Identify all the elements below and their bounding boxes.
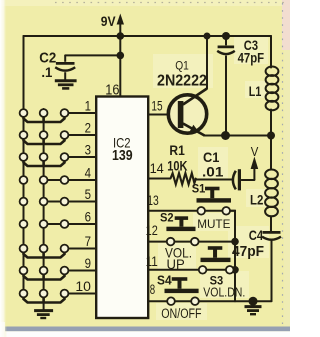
wire 9V top rail	[24, 35, 272, 37]
svg-text:.1: .1	[41, 64, 52, 80]
svg-text:6: 6	[85, 209, 91, 224]
wire S2 row to bus	[199, 241, 235, 243]
inductor L1	[266, 67, 279, 111]
svg-text:47pF: 47pF	[238, 50, 265, 65]
pin 16	[105, 82, 119, 98]
keypad row 6 contacts	[20, 220, 69, 228]
wire pin13 S1 row	[149, 210, 236, 212]
keypad row 7 contacts	[20, 245, 69, 253]
transistor Q1	[168, 89, 207, 136]
wire pin14 to R1	[149, 178, 171, 180]
wire keypad row 9 to pin 9	[65, 270, 97, 272]
svg-text:UP: UP	[167, 256, 185, 272]
wire keypad row 10 bus	[24, 297, 65, 303]
wire right column top (to L1)	[270, 36, 272, 68]
label VOL.	[165, 245, 192, 261]
pin 9	[85, 256, 91, 271]
wire pin11 volume-up row	[149, 269, 236, 271]
svg-text:R1: R1	[169, 143, 185, 158]
node vol-up / bus	[231, 266, 239, 274]
wire keypad row 9 bus	[24, 274, 65, 280]
label V	[251, 144, 259, 159]
label VOL.DN.	[203, 286, 245, 300]
svg-text:7: 7	[85, 234, 91, 249]
wire keypad row 1 bus	[24, 116, 65, 122]
wire C1 to antenna	[242, 179, 255, 181]
svg-text:.01: .01	[202, 164, 224, 179]
wire middle keypad column	[43, 109, 45, 304]
svg-text:VOL.DN.: VOL.DN.	[203, 286, 245, 300]
pin 11	[146, 254, 158, 269]
wire emitter rail	[204, 135, 271, 137]
keypad row 10 contacts	[20, 290, 69, 298]
9V supply arrow	[117, 14, 124, 37]
wire keypad row 2 to pin 2	[65, 134, 97, 136]
label S1	[192, 184, 206, 196]
wire pin15 to Q1 base	[149, 114, 179, 116]
pin 4	[85, 165, 92, 180]
value R1 10K	[167, 159, 187, 174]
label IC2	[113, 135, 131, 151]
wire C4 to ground rail	[271, 240, 273, 302]
label S4	[157, 274, 172, 288]
label L1	[249, 84, 262, 99]
wire keypad row 3 bus	[24, 160, 65, 166]
keypad row 3 contacts	[20, 153, 69, 161]
svg-text:3: 3	[85, 142, 91, 157]
keypad row 5 contacts	[20, 198, 69, 206]
capacitor C1	[233, 169, 240, 190]
antenna V arrow	[251, 157, 259, 181]
capacitor C3	[217, 40, 235, 136]
pin 12	[146, 223, 158, 238]
label C1	[203, 150, 220, 165]
label C3	[244, 38, 259, 53]
pin 15	[151, 99, 162, 114]
pin 6	[85, 209, 91, 224]
node emitter rail / L1 / L2	[267, 132, 275, 140]
wire L2 to C4	[270, 217, 272, 232]
node collector / rail	[204, 33, 211, 40]
pin 7	[85, 234, 91, 249]
value C2 .1	[41, 64, 52, 80]
pin 8	[150, 282, 155, 297]
label ON/OFF	[161, 306, 201, 321]
svg-text:1: 1	[85, 98, 91, 113]
wire keypad row 10 to pin 10	[65, 293, 97, 295]
wire keypad row 5 to pin 5	[44, 201, 97, 203]
label C2	[39, 51, 56, 67]
svg-text:139: 139	[112, 147, 133, 164]
resistor R1	[171, 173, 196, 184]
wire pin8 S4 row	[149, 300, 200, 302]
svg-text:5: 5	[85, 187, 91, 202]
dotted frame right	[282, 3, 284, 324]
label 139	[112, 147, 133, 164]
node C2 / pin16	[117, 52, 125, 60]
node 9V rail / pin16	[117, 32, 125, 40]
ground below keypad	[34, 304, 53, 318]
pin 2	[85, 120, 91, 135]
svg-text:9V: 9V	[101, 13, 116, 29]
pin 13	[147, 193, 159, 208]
wire L2 top	[270, 136, 272, 170]
label 2N2222	[157, 73, 207, 90]
svg-text:8: 8	[150, 282, 155, 297]
pin 1	[85, 98, 91, 113]
wire collector drop	[206, 36, 208, 89]
dotted frame top	[55, 2, 288, 4]
wire keypad row 6 to pin 6	[44, 223, 97, 225]
switch S3 volume	[199, 246, 234, 273]
wire keypad row 1 to pin 1	[65, 112, 97, 114]
label UP	[167, 256, 185, 272]
svg-text:13: 13	[147, 193, 159, 208]
wire left keypad column	[23, 36, 25, 297]
label background patches	[153, 35, 269, 320]
ground bottom right	[245, 301, 262, 314]
wire C2 to node	[65, 54, 120, 56]
svg-text:16: 16	[105, 82, 119, 98]
label 9V	[101, 13, 116, 29]
svg-text:MUTE: MUTE	[197, 217, 230, 231]
svg-text:L2: L2	[250, 193, 263, 208]
keypad row 2 contacts	[20, 131, 69, 139]
label MUTE	[197, 217, 230, 231]
label L2	[250, 193, 263, 208]
svg-text:S1: S1	[192, 184, 206, 196]
svg-text:S2: S2	[160, 211, 174, 225]
label Q1	[175, 59, 189, 73]
svg-text:C1: C1	[203, 150, 220, 165]
svg-text:Q1: Q1	[175, 59, 189, 73]
wire keypad row 3 to pin 3	[65, 156, 97, 158]
wire pin16 supply drop	[119, 36, 121, 97]
value C4 47pF	[232, 244, 264, 260]
svg-text:10K: 10K	[167, 159, 187, 174]
keypad row 1 contacts	[20, 109, 69, 117]
pin 10	[75, 279, 91, 294]
wire bottom ground rail	[200, 300, 272, 302]
svg-text:10: 10	[75, 279, 91, 294]
svg-text:2: 2	[85, 120, 91, 135]
svg-text:C4: C4	[249, 228, 264, 243]
keypad row 9 contacts	[20, 267, 69, 275]
left scan edge	[0, 0, 7, 337]
label R1	[169, 143, 185, 158]
label C4	[249, 228, 264, 243]
svg-text:11: 11	[146, 254, 158, 269]
switch S4 on/off	[165, 277, 199, 305]
svg-text:14: 14	[150, 161, 165, 176]
svg-text:15: 15	[151, 99, 162, 114]
pin 14	[150, 161, 165, 176]
node ground junction	[249, 297, 258, 306]
value C1 .01	[202, 164, 224, 179]
wire switch bus vertical	[230, 211, 235, 301]
wire keypad row 7 to pin 7	[65, 248, 97, 250]
svg-text:V: V	[251, 144, 259, 159]
wire keypad row 2 bus	[24, 138, 65, 144]
bottom scan shadow band	[0, 322, 290, 337]
svg-text:S4: S4	[157, 274, 172, 288]
node emitter / C3	[221, 131, 230, 140]
svg-text:4: 4	[85, 165, 92, 180]
svg-text:9: 9	[85, 256, 91, 271]
wire pin12 S2 row	[149, 241, 199, 243]
wire keypad row 7 bus	[24, 252, 65, 258]
svg-text:2N2222: 2N2222	[157, 73, 207, 90]
op-amp U1 IC2 139 body	[96, 97, 148, 319]
wire R1 to C1	[196, 179, 233, 180]
svg-text:12: 12	[146, 223, 158, 238]
node C3 / rail	[222, 32, 230, 40]
value C3 47pF	[238, 50, 265, 65]
switch S1	[197, 187, 232, 215]
svg-text:47pF: 47pF	[232, 244, 264, 260]
pin 5	[85, 187, 91, 202]
inductor L2	[265, 170, 278, 217]
svg-text:L1: L1	[249, 84, 262, 99]
pin 3	[85, 142, 91, 157]
keypad row 4 contacts	[20, 176, 69, 184]
svg-text:ON/OFF: ON/OFF	[161, 306, 201, 321]
label S2	[160, 211, 174, 225]
switch S2 mute	[166, 216, 198, 245]
wire L1 bottom	[270, 110, 272, 136]
capacitor C4	[262, 232, 281, 239]
label S3	[210, 274, 224, 288]
capacitor C2	[55, 55, 75, 79]
ground below C2	[55, 81, 77, 89]
wire keypad row 4 to pin 4	[44, 179, 97, 181]
node S2 / bus	[231, 238, 239, 246]
